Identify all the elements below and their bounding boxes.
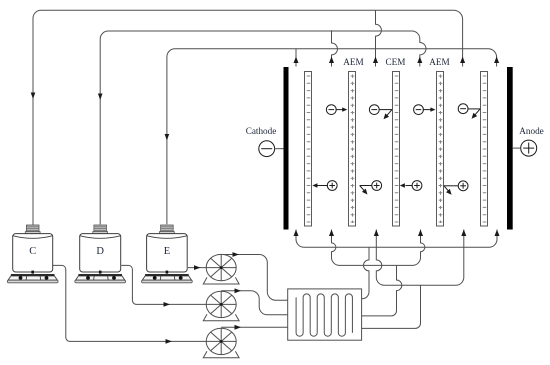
heat exchanger serpentine coil xyxy=(296,294,352,336)
arrow up stack bottom inlet channel 5 xyxy=(461,230,466,237)
arrow right pump2 outlet xyxy=(235,288,242,293)
pump P1 (tank E loop) xyxy=(203,254,239,284)
membrane M4 AEM xyxy=(437,72,444,227)
svg-text:D: D xyxy=(96,246,104,257)
tank D liquid-surface arc xyxy=(80,236,120,239)
tank C stirrer notch xyxy=(31,271,34,274)
tank C liquid-surface arc xyxy=(13,236,52,239)
wire pump2 outlet to heat exchanger left port2 xyxy=(221,291,288,315)
wire branch line1 to channel 3 (hop over line2) xyxy=(376,10,382,66)
cathode electrode bar xyxy=(284,67,289,230)
tank D stirrer notch xyxy=(99,271,102,274)
pump P2 (tank D loop) xyxy=(203,291,239,321)
tank E cap xyxy=(161,225,174,232)
svg-text:Anode: Anode xyxy=(519,126,544,136)
arrow up stack top outlet channel 3 xyxy=(373,57,378,64)
membrane M1 (CEM type, negative fixed charges) xyxy=(305,72,312,227)
arrow right pump3 outlet xyxy=(235,325,242,330)
cathode terminal symbol (circled minus) xyxy=(259,141,284,157)
arrow right tank C feed into pump3 xyxy=(166,339,173,344)
tank D bottom rail xyxy=(75,280,126,283)
wire tank D outlet to pump2 xyxy=(121,265,207,304)
wire tank C outlet to pump3 xyxy=(52,265,207,341)
svg-text:AEM: AEM xyxy=(343,57,363,67)
tank D body xyxy=(80,234,121,272)
ion cation in channel 5 rejected (bent arrow) xyxy=(444,181,468,192)
ion anion in channel 5 rejected (bent arrow) xyxy=(458,104,480,115)
arrow up stack top outlet channel 6 xyxy=(494,57,499,64)
wire heat exchanger right port1 to ch1/ch6 manifold (hop left over ch2/ch4 manifold) xyxy=(362,247,369,298)
svg-text:CEM: CEM xyxy=(386,57,406,67)
wire heat exchanger right port3 to ch3/ch5 manifold xyxy=(362,285,421,328)
ion anion in channel 2 moving right through AEM xyxy=(326,105,342,115)
ion cation in channel 3 rejected by AEM (bent arrow) xyxy=(360,181,382,192)
svg-text:AEM: AEM xyxy=(429,57,449,67)
tank E bottom rail xyxy=(142,280,193,283)
arrows group xyxy=(31,57,500,344)
tank C bottom rail xyxy=(7,280,58,283)
arrow up stack top outlet channel 2 xyxy=(329,57,334,64)
arrow down on line1 drop to tank C xyxy=(31,93,36,100)
arrow up stack bottom inlet channel 1 xyxy=(294,230,299,237)
heat exchanger shell xyxy=(288,289,362,340)
tank C body xyxy=(13,234,53,272)
svg-text:E: E xyxy=(164,246,170,257)
tank E liquid-surface arc xyxy=(147,236,187,239)
ion anion in channel 3 rejected by CEM (bent arrow) xyxy=(369,105,392,116)
anode terminal symbol (circled plus) xyxy=(513,140,537,156)
tank D wheels xyxy=(86,276,90,280)
membrane M3 CEM xyxy=(393,72,400,227)
arrow up stack bottom inlet channel 3 xyxy=(374,230,379,237)
arrow right pump1 outlet xyxy=(233,252,240,257)
wire branch line2 to channel 2 (hop over line3) xyxy=(332,30,338,66)
arrow right tank D feed into pump2 xyxy=(164,302,171,307)
tank C cap xyxy=(26,225,39,232)
membrane M2 AEM (positive fixed charges) xyxy=(349,72,356,227)
wire pump3 outlet to heat exchanger left port3 xyxy=(221,326,288,328)
tank C wheels xyxy=(19,276,23,280)
pump P3 (tank C loop) xyxy=(203,328,239,358)
tank E stirrer notch xyxy=(166,271,169,274)
tank D cap xyxy=(94,225,107,232)
arrow down on line3 drop to tank E xyxy=(165,134,170,141)
tank D xyxy=(75,225,126,283)
arrow right tank E feed into pump1 xyxy=(194,265,201,270)
wire bottom manifold channels 3 and 5 (hop over ch2/ch4 manifold) xyxy=(376,230,464,286)
wire heat exchanger right port2 to ch2/ch4 manifold (hop over ch3/ch5 pipe) xyxy=(362,265,402,316)
arrow down on line2 drop to tank D xyxy=(98,94,103,101)
tank E wheels xyxy=(153,276,157,280)
tank E base plate xyxy=(145,274,189,276)
membrane M5 (CEM type) xyxy=(481,72,488,227)
wire pump1 outlet to heat exchanger left port1 xyxy=(221,255,288,301)
svg-text:C: C xyxy=(29,246,36,257)
arrow up stack top outlet channel 5 xyxy=(460,57,465,64)
ion cation in channel 2 moving left through M1 xyxy=(317,181,337,191)
wire tank E outlet to pump1 xyxy=(188,267,207,269)
ion anion in channel 4 moving right through AEM xyxy=(414,105,431,115)
tank D base plate xyxy=(78,274,122,276)
tank E xyxy=(142,225,193,283)
svg-text:Cathode: Cathode xyxy=(246,126,277,136)
tank E body xyxy=(147,234,188,272)
arrow up stack bottom inlet channel 2 xyxy=(329,230,334,237)
wire top manifold line1 (tank C loop, channels 3 and 5) xyxy=(33,10,463,225)
wire bottom manifold channels 2 and 4 (hops over ch1/ch6 manifold) xyxy=(332,230,425,266)
arrow up stack top outlet channel 4 xyxy=(417,57,422,64)
tank C xyxy=(7,225,58,283)
arrow up stack bottom inlet channel 6 xyxy=(495,230,500,237)
wire branch line3 to channel 1 xyxy=(295,49,297,67)
wire top manifold line2 (tank D loop, channels 2 and 4) xyxy=(100,31,426,224)
wire bottom manifold channels 1 and 6 xyxy=(296,230,497,248)
anode electrode bar xyxy=(507,67,513,230)
ion cation in channel 4 moving left through CEM xyxy=(406,181,422,191)
wire top manifold line3 (tank E loop, channels 1 and 6) xyxy=(167,49,497,225)
tank C base plate xyxy=(11,274,55,276)
arrow up stack top outlet channel 1 xyxy=(294,57,299,64)
arrow up stack bottom inlet channel 4 xyxy=(418,230,423,237)
